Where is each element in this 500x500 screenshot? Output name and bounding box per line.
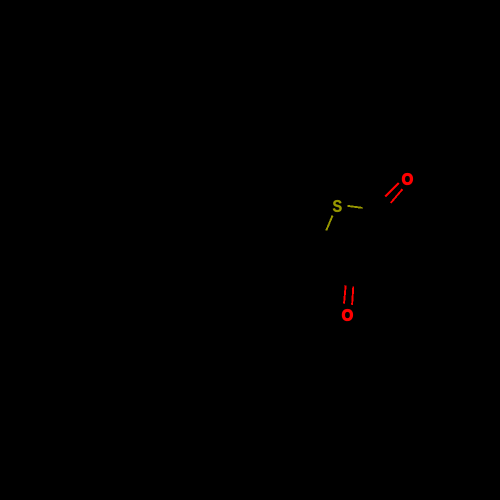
oxygen atom O1 (ketone oxygen, top right) (402, 173, 412, 184)
bond S1-C2 (yellow half) (348, 206, 363, 208)
double bond C3=O2 line 1 (red half) (344, 285, 346, 303)
bond S1-C5 (yellow half) (326, 216, 332, 231)
double bond C2=O1 line 1 (red half) (385, 183, 399, 197)
sulfur atom S1 (333, 200, 342, 212)
double bond C3=O2 line 2 (red half) (352, 287, 353, 305)
oxygen atom O2 (ketone oxygen, bottom) (342, 309, 352, 320)
double bond C2=O1 line 2 (red half) (391, 189, 403, 203)
